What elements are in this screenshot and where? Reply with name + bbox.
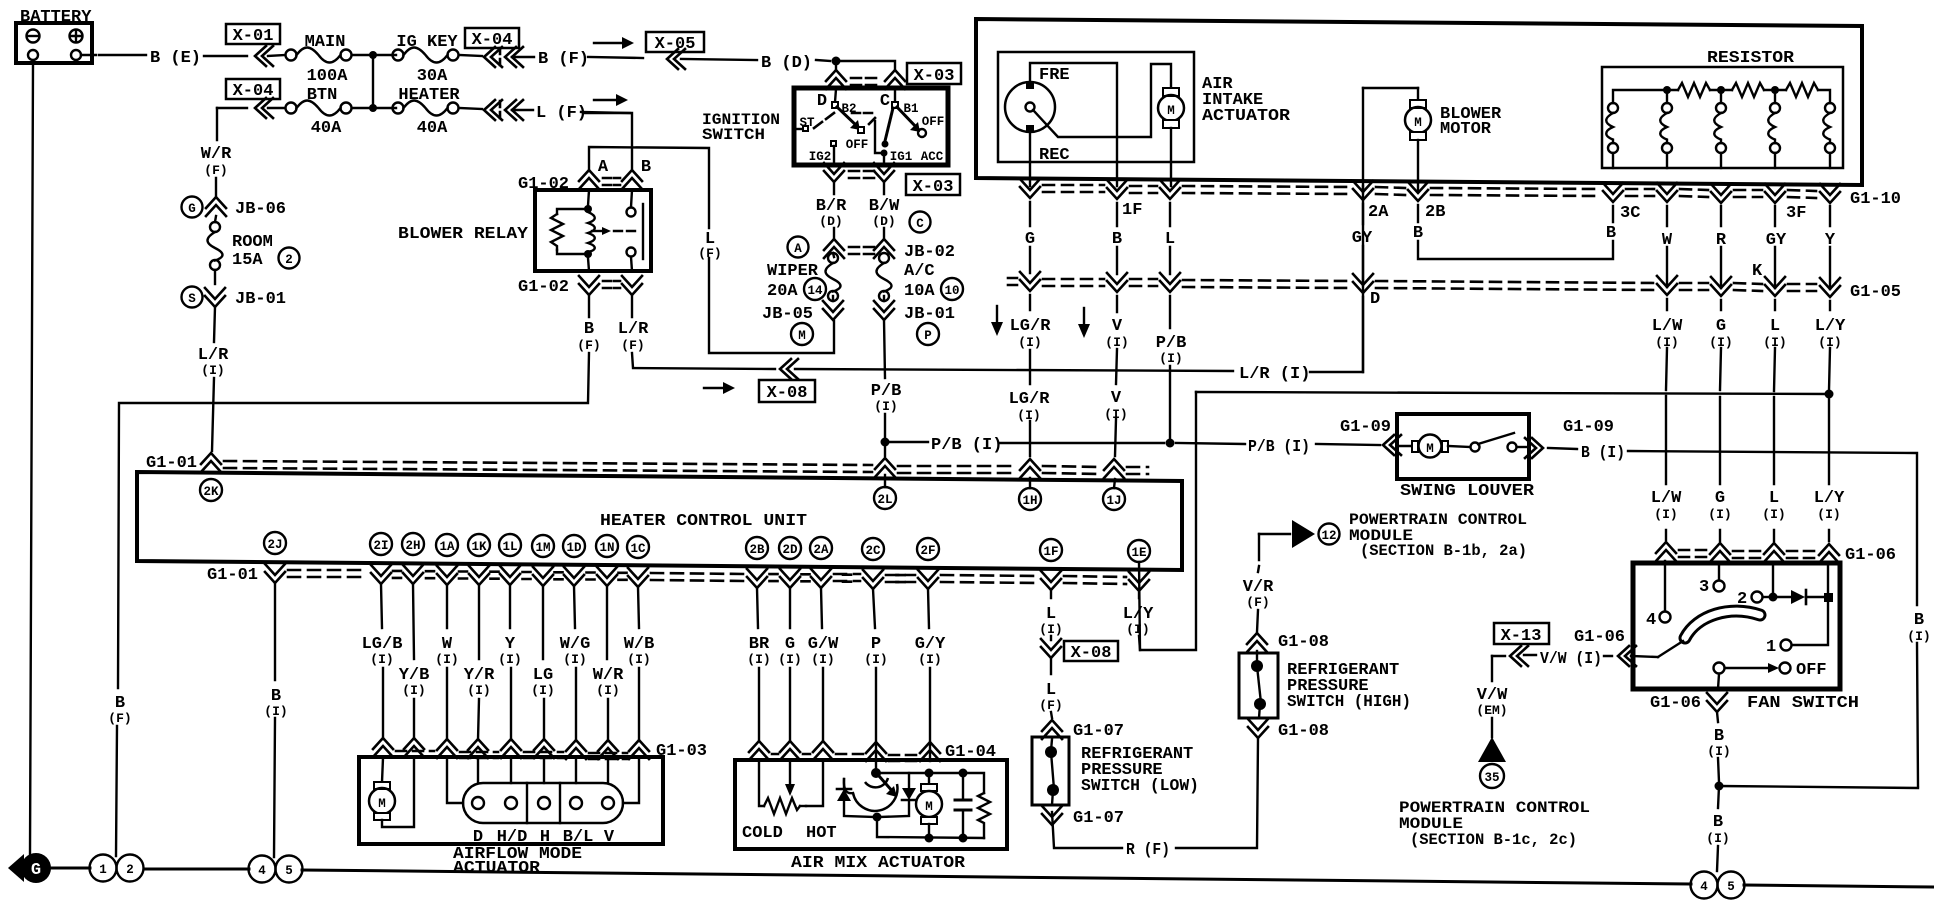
blower relay U1 — [535, 190, 651, 271]
svg-text:(I): (I) — [1762, 507, 1785, 522]
pin 2I — [370, 533, 392, 555]
node M circled — [791, 323, 813, 345]
pin 2D — [779, 537, 801, 559]
svg-text:(I): (I) — [531, 683, 554, 698]
node 14 circled — [804, 278, 826, 300]
pin 1C — [627, 536, 649, 558]
air intake actuator label — [1202, 75, 1291, 126]
fuse A/C 10A — [877, 253, 936, 301]
junction dot air mix bottom left — [873, 813, 882, 822]
airflow mode actuator contact slot — [447, 758, 639, 823]
wire B blower motor to resistor B — [1418, 205, 1613, 259]
svg-text:M: M — [1426, 442, 1434, 456]
svg-text:BLOWER RELAY: BLOWER RELAY — [398, 225, 529, 244]
svg-text:1L: 1L — [502, 540, 517, 554]
node B/W (D) — [869, 197, 900, 229]
svg-text:W: W — [1662, 231, 1673, 250]
svg-text:1J: 1J — [1106, 494, 1121, 508]
node L/Y (I) upper — [1815, 317, 1846, 350]
svg-text:(I): (I) — [1654, 507, 1677, 522]
svg-text:OFF: OFF — [846, 138, 869, 152]
pin 1N — [596, 535, 618, 557]
svg-text:G1-06: G1-06 — [1845, 546, 1896, 565]
svg-text:X-04: X-04 — [472, 31, 513, 50]
wire to fuse BTN — [268, 107, 285, 109]
junction dot top row — [369, 51, 377, 59]
fuse WIPER 20A — [767, 253, 841, 301]
svg-text:HEATER CONTROL UNIT: HEATER CONTROL UNIT — [600, 512, 807, 531]
air mix diode D1 — [837, 779, 875, 817]
node Y (I) — [498, 635, 521, 667]
wire 2H Y/B — [413, 584, 414, 739]
connector X-01 — [226, 24, 280, 66]
connector G1-02 top — [518, 170, 642, 194]
svg-text:G: G — [1025, 230, 1035, 249]
wire L (F) to G1-07 — [1051, 658, 1052, 718]
svg-text:G: G — [1716, 317, 1726, 336]
svg-text:OFF: OFF — [922, 115, 945, 129]
node 1 circled — [90, 855, 117, 882]
svg-text:2: 2 — [126, 863, 134, 877]
svg-text:10A: 10A — [904, 282, 935, 301]
svg-text:(I): (I) — [1017, 408, 1040, 423]
svg-text:W/R: W/R — [201, 145, 232, 164]
node P circled — [917, 323, 939, 345]
connector row G1-01 top — [146, 453, 1148, 478]
wire to fuse MAIN — [268, 55, 285, 56]
svg-text:IG1: IG1 — [890, 150, 913, 164]
node W/R (I) — [593, 666, 624, 698]
svg-text:V: V — [604, 828, 615, 847]
junction dot pin 2 — [1769, 593, 1778, 602]
wire Y down to fan switch diode junction — [1828, 206, 1830, 592]
svg-text:20A: 20A — [767, 282, 798, 301]
svg-text:B: B — [1413, 224, 1423, 243]
svg-text:AIR MIX ACTUATOR: AIR MIX ACTUATOR — [791, 854, 966, 873]
resistor R2 zigzag — [1732, 83, 1764, 97]
bottom rail wire — [50, 868, 1933, 887]
svg-text:2J: 2J — [267, 538, 282, 552]
arrow down at LG/R — [991, 306, 1003, 336]
wire 1A W — [446, 585, 448, 740]
svg-text:(I): (I) — [1018, 335, 1041, 350]
svg-text:B: B — [641, 158, 651, 177]
svg-text:(F): (F) — [577, 338, 600, 353]
node L/R (F) label below relay — [618, 320, 649, 353]
svg-text:LG/R: LG/R — [1010, 317, 1052, 336]
fan switch pin 3 — [1699, 578, 1725, 597]
svg-text:G1-09: G1-09 — [1563, 418, 1614, 437]
svg-text:14: 14 — [807, 284, 823, 298]
svg-text:V/W (I): V/W (I) — [1540, 650, 1602, 669]
junction dot P/B at L wire — [1166, 439, 1175, 448]
arrow right at X-08 — [704, 382, 735, 394]
wire 1K Y/R — [478, 585, 479, 740]
svg-text:10: 10 — [944, 284, 959, 298]
svg-text:(I): (I) — [918, 652, 941, 667]
svg-text:(D): (D) — [819, 214, 842, 229]
svg-text:2B: 2B — [749, 543, 765, 557]
svg-text:(I): (I) — [1907, 629, 1930, 644]
fan switch wiper arm — [1658, 641, 1683, 657]
svg-text:M: M — [1167, 104, 1175, 118]
connector row G1-04 — [749, 741, 996, 762]
svg-text:(I): (I) — [778, 652, 801, 667]
wire 2C P — [873, 589, 876, 742]
wire G/Y into air mix — [929, 744, 931, 761]
connector X-13 — [1494, 623, 1549, 646]
resistor R1 zigzag — [1678, 83, 1710, 97]
svg-text:(SECTION B-1c, 2c): (SECTION B-1c, 2c) — [1410, 831, 1577, 849]
svg-text:15A: 15A — [232, 251, 263, 270]
svg-text:35: 35 — [1484, 771, 1499, 785]
node W (I) — [435, 635, 458, 667]
wire GY down to fan switch pin 2 — [1773, 206, 1775, 593]
svg-text:40A: 40A — [311, 119, 342, 138]
svg-text:IG KEY: IG KEY — [396, 33, 458, 52]
junction dot L/Y — [1825, 390, 1834, 399]
connector row G1-10 — [1020, 179, 1901, 209]
powertrain control module 12 — [1259, 511, 1527, 560]
node B (I) bottom — [1706, 813, 1729, 846]
svg-text:S: S — [188, 292, 196, 306]
svg-text:(I): (I) — [1126, 622, 1149, 637]
wire relay pin A feed from JB-05 loop — [589, 147, 834, 353]
svg-text:(I): (I) — [1763, 335, 1786, 350]
wire 1D W/G — [574, 586, 576, 741]
svg-text:B: B — [584, 320, 594, 339]
wire junction to C branch — [836, 61, 895, 69]
connector JB-05 — [762, 296, 843, 324]
svg-text:(I): (I) — [1655, 335, 1678, 350]
fuse HEATER 40A — [393, 86, 461, 138]
svg-text:(I): (I) — [201, 363, 224, 378]
wire 2I LG/B — [381, 584, 383, 739]
svg-text:MOTOR: MOTOR — [1440, 120, 1492, 139]
wire X-05 to B (D) — [681, 59, 757, 60]
svg-text:1F: 1F — [1043, 545, 1058, 559]
node P/B (I) vertical right — [1156, 334, 1187, 366]
svg-text:1A: 1A — [439, 540, 455, 554]
node L (F) vertical label — [698, 230, 721, 261]
svg-text:(I): (I) — [370, 652, 393, 667]
connector X-08 second — [1041, 639, 1118, 663]
wire to L (F) — [512, 110, 630, 113]
fan switch rotor crescent — [1685, 611, 1760, 638]
ground G — [8, 853, 51, 883]
node 2 circled — [279, 248, 300, 269]
svg-text:1K: 1K — [471, 540, 487, 554]
node C circled — [910, 212, 931, 233]
wire 2F G/Y — [928, 589, 930, 742]
resistor coil 3 — [1714, 90, 1726, 168]
svg-text:G1-10: G1-10 — [1850, 190, 1901, 209]
wire B(E) battery to X-01 — [81, 55, 247, 56]
svg-text:(I): (I) — [1104, 407, 1127, 422]
wire junction to right riser — [1719, 786, 1918, 788]
connector X-04 chevrons row2 — [484, 100, 523, 120]
air mix resistor R4 — [978, 793, 990, 838]
wire 2A G/W — [821, 588, 823, 741]
svg-text:(SECTION B-1b, 2a): (SECTION B-1b, 2a) — [1360, 542, 1527, 560]
wire fuse to JB-01 — [214, 270, 216, 284]
wire to B (F) — [512, 57, 643, 58]
connector JB-01 bottom — [874, 296, 955, 324]
connector row G1-06 — [1656, 542, 1896, 565]
svg-text:L/R: L/R — [618, 320, 649, 339]
svg-text:(I): (I) — [596, 683, 619, 698]
wire 1N W/R — [607, 586, 608, 741]
svg-text:2H: 2H — [405, 539, 420, 553]
connector X-03 bottom — [824, 163, 960, 197]
node B/R (D) — [816, 197, 847, 229]
fan switch OFF contact — [1714, 661, 1827, 680]
svg-text:FRE: FRE — [1039, 66, 1070, 85]
svg-text:L: L — [1770, 317, 1780, 336]
connector X-04 — [465, 28, 523, 67]
wire 1L Y — [510, 585, 511, 740]
wire 1F L to X-08 — [1050, 591, 1052, 640]
fan switch pin 4 — [1646, 611, 1671, 630]
svg-text:M: M — [798, 329, 806, 343]
svg-text:30A: 30A — [417, 67, 448, 86]
svg-text:2: 2 — [285, 253, 293, 267]
svg-text:(I): (I) — [747, 652, 770, 667]
svg-text:B: B — [1606, 224, 1616, 243]
wire P/B junction down to pin 2L — [884, 442, 886, 487]
connector G1-09 left — [1340, 418, 1401, 455]
svg-text:L/Y: L/Y — [1815, 317, 1846, 336]
svg-text:B (E): B (E) — [150, 49, 201, 68]
svg-text:JB-01: JB-01 — [235, 290, 286, 309]
pin 1A — [436, 534, 458, 556]
wire FRE contact to B wire — [1030, 63, 1117, 186]
wire 1M LG — [543, 586, 544, 740]
svg-text:B: B — [1112, 230, 1122, 249]
junction dot row2 — [369, 104, 377, 112]
svg-text:3: 3 — [1699, 578, 1709, 597]
wire junction down to B2 — [835, 61, 837, 69]
wire 2B BR — [757, 588, 759, 741]
svg-text:HEATER: HEATER — [398, 86, 460, 105]
svg-text:1C: 1C — [630, 542, 646, 556]
battery — [16, 8, 92, 63]
node LG/R (I) lower — [1009, 390, 1051, 423]
svg-text:FAN SWITCH: FAN SWITCH — [1747, 694, 1859, 713]
svg-text:GY: GY — [1352, 229, 1373, 248]
wire B (I) fan switch down — [1717, 712, 1719, 782]
refrigerant pressure switch low label — [1081, 745, 1199, 796]
svg-text:K: K — [1752, 262, 1763, 281]
svg-text:COLD: COLD — [742, 824, 783, 843]
svg-text:L/W: L/W — [1651, 489, 1682, 508]
svg-text:B1: B1 — [903, 102, 918, 116]
fan switch box — [1633, 563, 1840, 689]
pin 1D — [563, 535, 585, 557]
svg-text:JB-01: JB-01 — [904, 305, 955, 324]
svg-text:B (F): B (F) — [538, 50, 589, 69]
svg-text:MAIN: MAIN — [305, 33, 346, 52]
wire W down to fan switch pin 4 — [1665, 206, 1667, 611]
wire V/W (EM) down to PCM 35 — [1491, 656, 1493, 737]
svg-text:(I): (I) — [864, 652, 887, 667]
svg-text:L/R (I): L/R (I) — [1239, 365, 1310, 384]
svg-text:1: 1 — [99, 863, 107, 877]
svg-text:V: V — [1112, 317, 1123, 336]
svg-text:1D: 1D — [566, 541, 582, 555]
wire BTN to junction — [352, 107, 396, 109]
pin 2K — [200, 479, 222, 501]
node L/Y (I) lower — [1814, 489, 1845, 522]
connector X-03 top — [826, 63, 961, 89]
fuse IG KEY 30A — [393, 33, 459, 86]
pin 2F — [917, 538, 939, 560]
node D H/D H B/L V labels — [473, 828, 615, 847]
svg-text:SWING LOUVER: SWING LOUVER — [1400, 482, 1535, 501]
node B (F) label bottom left — [108, 694, 131, 726]
svg-text:(F): (F) — [108, 711, 131, 726]
node P/B (I) vertical label — [871, 382, 902, 414]
node L (I) — [1039, 605, 1062, 637]
svg-text:JB-06: JB-06 — [235, 200, 286, 219]
svg-text:B (I): B (I) — [1581, 444, 1625, 463]
connector X-05 — [646, 32, 704, 69]
node Y/R (I) — [464, 666, 495, 698]
svg-text:SWITCH: SWITCH — [702, 126, 765, 144]
svg-text:5: 5 — [1727, 880, 1735, 894]
svg-text:R (F): R (F) — [1126, 841, 1170, 860]
svg-text:4: 4 — [1646, 611, 1656, 630]
svg-text:(I): (I) — [874, 399, 897, 414]
second fuse row wire from W/R branch — [217, 107, 247, 109]
svg-text:2A: 2A — [1368, 203, 1389, 222]
pin 2C — [862, 538, 884, 560]
svg-text:(I): (I) — [1707, 744, 1730, 759]
wire HEATER to X-04 chevrons — [459, 108, 482, 109]
node G (I) upper — [1709, 317, 1732, 350]
svg-text:12: 12 — [1321, 529, 1336, 543]
wire OFF contact down — [1718, 674, 1719, 689]
svg-text:OFF: OFF — [1796, 661, 1827, 680]
refrigerant pressure switch low — [1032, 737, 1069, 805]
svg-text:3C: 3C — [1620, 204, 1640, 223]
svg-text:(I): (I) — [1039, 622, 1062, 637]
wire P into air mix — [875, 744, 877, 761]
connector row G1-01 bottom — [207, 564, 1149, 591]
airflow mode actuator label — [453, 845, 582, 878]
wire to ROOM fuse — [215, 216, 216, 222]
connector row G1-05 — [1008, 272, 1901, 302]
pin 1E — [1128, 540, 1150, 562]
connector JB-06 with G — [182, 197, 287, 220]
svg-text:BTN: BTN — [307, 86, 338, 105]
wire fuse MAIN to junction — [352, 54, 396, 56]
pin 2J — [264, 532, 286, 554]
air mix diode D2 — [879, 773, 916, 817]
node B (I) right edge — [1907, 611, 1930, 644]
node V/W (EM) — [1476, 686, 1508, 718]
ignition switch label — [702, 111, 780, 144]
svg-text:40A: 40A — [417, 119, 448, 138]
svg-text:2K: 2K — [203, 485, 219, 499]
wire L/Y branch horizontal to 1E riser — [1196, 392, 1829, 394]
svg-text:G1-01: G1-01 — [207, 566, 258, 585]
svg-text:ACTUATOR: ACTUATOR — [453, 859, 541, 878]
svg-text:1N: 1N — [599, 541, 614, 555]
svg-text:JB-05: JB-05 — [762, 305, 813, 324]
wire B (I) from swing louver to right edge — [1548, 448, 1918, 786]
wire W/R (F) branch down — [216, 108, 217, 196]
wire B (F) relay output — [116, 295, 589, 856]
svg-text:B (D): B (D) — [761, 54, 812, 73]
wire R down to fan switch pin 3 — [1719, 206, 1721, 580]
pin 2L — [874, 487, 896, 509]
wire G to LG/R down to pin 1H — [1029, 202, 1031, 488]
connector JB-02 row with A — [788, 237, 956, 263]
svg-text:(EM): (EM) — [1476, 703, 1507, 718]
node 35 circled — [1480, 764, 1504, 788]
node G (I) airmix — [778, 635, 801, 667]
blower motor label — [1440, 105, 1502, 139]
resistor coil 4 — [1768, 90, 1780, 168]
svg-text:D: D — [1370, 290, 1380, 309]
svg-text:L/Y: L/Y — [1814, 489, 1845, 508]
svg-text:2C: 2C — [865, 544, 881, 558]
fan switch diode D3 — [1773, 590, 1828, 604]
fuse MAIN 100A — [286, 33, 352, 86]
svg-text:(I): (I) — [467, 683, 490, 698]
pin 2H — [402, 533, 424, 555]
svg-text:(I): (I) — [498, 652, 521, 667]
node V/R (F) — [1243, 578, 1274, 610]
svg-text:L: L — [1769, 489, 1779, 508]
connector X-04 row2 — [226, 79, 280, 118]
svg-text:REC: REC — [1039, 146, 1070, 165]
svg-text:(I): (I) — [563, 652, 586, 667]
svg-text:G1-08: G1-08 — [1278, 633, 1329, 652]
svg-text:P: P — [924, 329, 932, 343]
svg-text:1M: 1M — [535, 541, 550, 555]
pin 2B — [746, 537, 768, 559]
svg-text:G1-07: G1-07 — [1073, 809, 1124, 828]
big enclosure box top right — [976, 19, 1862, 185]
svg-text:G: G — [31, 861, 41, 880]
svg-text:B: B — [1914, 611, 1924, 630]
svg-text:G: G — [1715, 489, 1725, 508]
svg-text:IG2: IG2 — [809, 150, 832, 164]
junction dots resistor bus — [1663, 86, 1779, 94]
svg-text:RESISTOR: RESISTOR — [1707, 49, 1795, 68]
junction square at L/Y — [1824, 593, 1833, 602]
connector X-08 — [759, 359, 815, 403]
air intake actuator inner box — [998, 52, 1194, 162]
svg-text:X-08: X-08 — [1071, 644, 1112, 663]
svg-text:G1-09: G1-09 — [1340, 418, 1391, 437]
swing louver SL1 — [1397, 414, 1529, 479]
wire IG KEY to X-04 — [459, 55, 482, 56]
blower motor M2 — [1363, 88, 1431, 192]
wire L/R (F) to X-08 run — [632, 88, 1363, 372]
wire L(F) fuse output to blower relay pin B — [583, 113, 632, 170]
svg-text:(I): (I) — [435, 652, 458, 667]
air mix capacitor C1 — [955, 773, 971, 838]
svg-text:V: V — [1111, 389, 1122, 408]
svg-text:X-13: X-13 — [1501, 627, 1542, 646]
svg-text:100A: 100A — [307, 67, 349, 86]
junction dot B(I) — [1715, 782, 1724, 791]
refrigerant pressure switch high — [1239, 651, 1278, 718]
svg-text:(D): (D) — [872, 214, 895, 229]
